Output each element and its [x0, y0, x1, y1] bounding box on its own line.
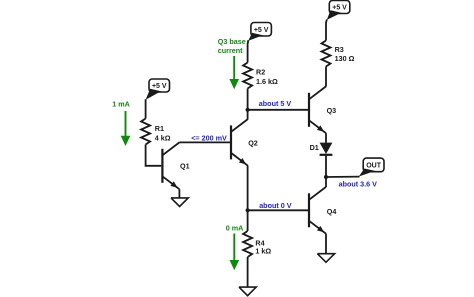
- wire Q2 emitter node to Q4 base: [248, 209, 308, 211]
- voltage annotation about 3.6 V: [339, 180, 378, 189]
- power flag +5V (feeds R2): [248, 23, 271, 41]
- node junction (about 3.6 V): [324, 175, 328, 179]
- svg-text:Q3: Q3: [327, 106, 337, 115]
- diode D1: [320, 143, 333, 155]
- svg-text:current: current: [218, 46, 243, 55]
- svg-text:R2: R2: [256, 67, 265, 76]
- wire R3 bottom to Q3 collector: [325, 67, 327, 87]
- wire +5V flag to R3 top: [325, 19, 328, 40]
- svg-text:Q1: Q1: [180, 161, 190, 170]
- label R4 value: [255, 239, 271, 256]
- voltage annotation about 0 V: [259, 201, 292, 210]
- wire Q1 emitter to ground: [178, 189, 180, 198]
- label R1 value: [155, 124, 171, 142]
- resistor R3: [322, 41, 331, 67]
- transistor Q2: [231, 119, 248, 166]
- svg-text:130 Ω: 130 Ω: [335, 54, 355, 63]
- svg-text:4 kΩ: 4 kΩ: [155, 134, 171, 143]
- svg-text:Q4: Q4: [327, 207, 337, 216]
- wire Q2 emitter to node (about 0 V): [247, 166, 249, 210]
- wire R1 bottom to Q1 base: [146, 145, 162, 166]
- wire D1 cathode to node: [325, 156, 327, 177]
- svg-text:R1: R1: [155, 124, 164, 133]
- current arrow 0 mA: [230, 234, 240, 271]
- svg-text:+5 V: +5 V: [332, 5, 347, 12]
- voltage annotation about 5 V: [259, 99, 292, 108]
- svg-text:Q3 base: Q3 base: [218, 37, 246, 46]
- transistor Q3: [309, 86, 326, 133]
- svg-text:D1: D1: [310, 143, 319, 152]
- transistor Q1: [162, 142, 179, 189]
- wire node to OUT flag: [326, 176, 360, 178]
- wire +5V flag to R2 top: [247, 40, 250, 62]
- wire Q4 emitter to ground: [325, 234, 327, 254]
- label Q4: [327, 207, 337, 216]
- svg-text:<= 200 mV: <= 200 mV: [191, 134, 227, 143]
- ground (Q4 emitter): [317, 254, 334, 263]
- svg-text:OUT: OUT: [366, 163, 382, 170]
- wire +5V flag to R1 top: [145, 99, 147, 118]
- label R3 value: [335, 45, 355, 63]
- svg-text:about 5 V: about 5 V: [259, 99, 292, 108]
- svg-text:R3: R3: [335, 45, 344, 54]
- wire Q1 collector to Q2 base: [179, 141, 230, 143]
- current arrow Q3 base current: [229, 56, 239, 89]
- wire node to Q4 collector: [325, 177, 327, 187]
- node junction (about 0 V): [246, 208, 250, 212]
- svg-text:+5 V: +5 V: [254, 27, 269, 34]
- svg-text:about 0 V: about 0 V: [259, 201, 292, 210]
- wire Q3 emitter to D1 anode: [325, 133, 327, 143]
- voltage annotation <= 200 mV: [191, 134, 227, 143]
- current arrow 1 mA: [121, 111, 131, 146]
- resistor R1: [141, 119, 150, 145]
- annotation Q3 base current: [218, 37, 246, 55]
- wire node to Q3 base: [248, 109, 308, 111]
- wire node to R4 top: [247, 210, 249, 231]
- label Q3: [327, 106, 337, 115]
- svg-text:1.6 kΩ: 1.6 kΩ: [256, 77, 278, 86]
- svg-text:Q2: Q2: [248, 139, 258, 148]
- label D1: [310, 143, 319, 152]
- svg-text:1 kΩ: 1 kΩ: [255, 247, 271, 256]
- power flag +5V (feeds R3): [327, 1, 350, 20]
- resistor R4: [243, 231, 252, 257]
- output flag OUT: [359, 158, 384, 176]
- resistor R2: [243, 63, 252, 89]
- power flag +5V (left, feeds R1): [146, 79, 170, 100]
- label R2 value: [256, 67, 278, 85]
- ground (R4 bottom): [239, 287, 256, 296]
- svg-text:0 mA: 0 mA: [226, 224, 244, 233]
- wire R2 bottom to node: [247, 89, 249, 111]
- label Q2: [248, 139, 258, 148]
- wire R4 bottom to ground: [247, 257, 249, 287]
- ground (Q1 emitter): [171, 198, 188, 207]
- current annotation 0 mA: [226, 224, 244, 233]
- node junction (about 5 V): [246, 108, 250, 112]
- transistor Q4: [309, 187, 326, 234]
- svg-text:about 3.6 V: about 3.6 V: [339, 180, 378, 189]
- svg-text:1 mA: 1 mA: [112, 100, 130, 109]
- svg-text:+5 V: +5 V: [152, 83, 167, 90]
- wire Q2 collector to node: [247, 110, 249, 119]
- label Q1: [180, 161, 190, 170]
- current annotation 1 mA: [112, 100, 130, 109]
